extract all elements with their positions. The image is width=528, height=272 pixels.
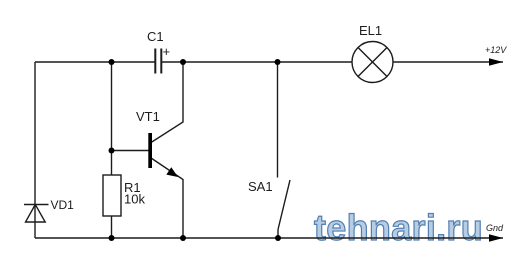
wire switch bottom lead (277, 230, 279, 239)
svg-text:C1: C1 (147, 29, 164, 44)
svg-text:+: + (163, 44, 171, 59)
svg-text:Gnd: Gnd (486, 223, 504, 233)
wire bottom rail (Gnd) (35, 237, 503, 239)
capacitor C1 (155, 49, 161, 74)
lamp EL1 (352, 42, 393, 83)
svg-text:+12V: +12V (485, 45, 507, 55)
svg-text:10k: 10k (124, 192, 145, 207)
wire emitter (152, 159, 183, 239)
wire left branch (34, 62, 36, 238)
diode VD1 (24, 205, 49, 223)
node top collector junction (180, 59, 186, 65)
node Gnd arrow (489, 234, 503, 241)
switch SA1 (278, 180, 290, 230)
node bottom R1 junction (109, 235, 115, 241)
wire switch top lead (277, 62, 279, 178)
svg-text:VT1: VT1 (136, 109, 160, 124)
node base junction (109, 148, 115, 154)
wire R1 bottom lead (111, 216, 113, 238)
svg-text:SA1: SA1 (248, 179, 273, 194)
watermark tehnari.ru (314, 207, 483, 248)
wire top rail right segment (393, 61, 503, 63)
node bottom emitter junction (180, 235, 186, 241)
wire base branch vertical (111, 62, 113, 175)
wire base horizontal (112, 150, 149, 152)
transistor VT1 (148, 133, 152, 168)
wire top rail middle segment (162, 61, 352, 63)
wire collector (152, 62, 183, 142)
svg-text:EL1: EL1 (359, 23, 382, 38)
node top base junction (109, 59, 115, 65)
svg-text:VD1: VD1 (51, 198, 75, 212)
wire top rail left segment (35, 61, 155, 63)
svg-text:tehnari.ru: tehnari.ru (314, 207, 483, 248)
node +12V arrow (489, 58, 503, 65)
resistor R1 (103, 175, 121, 216)
node bottom switch junction (275, 235, 281, 241)
node top switch junction (275, 59, 281, 65)
